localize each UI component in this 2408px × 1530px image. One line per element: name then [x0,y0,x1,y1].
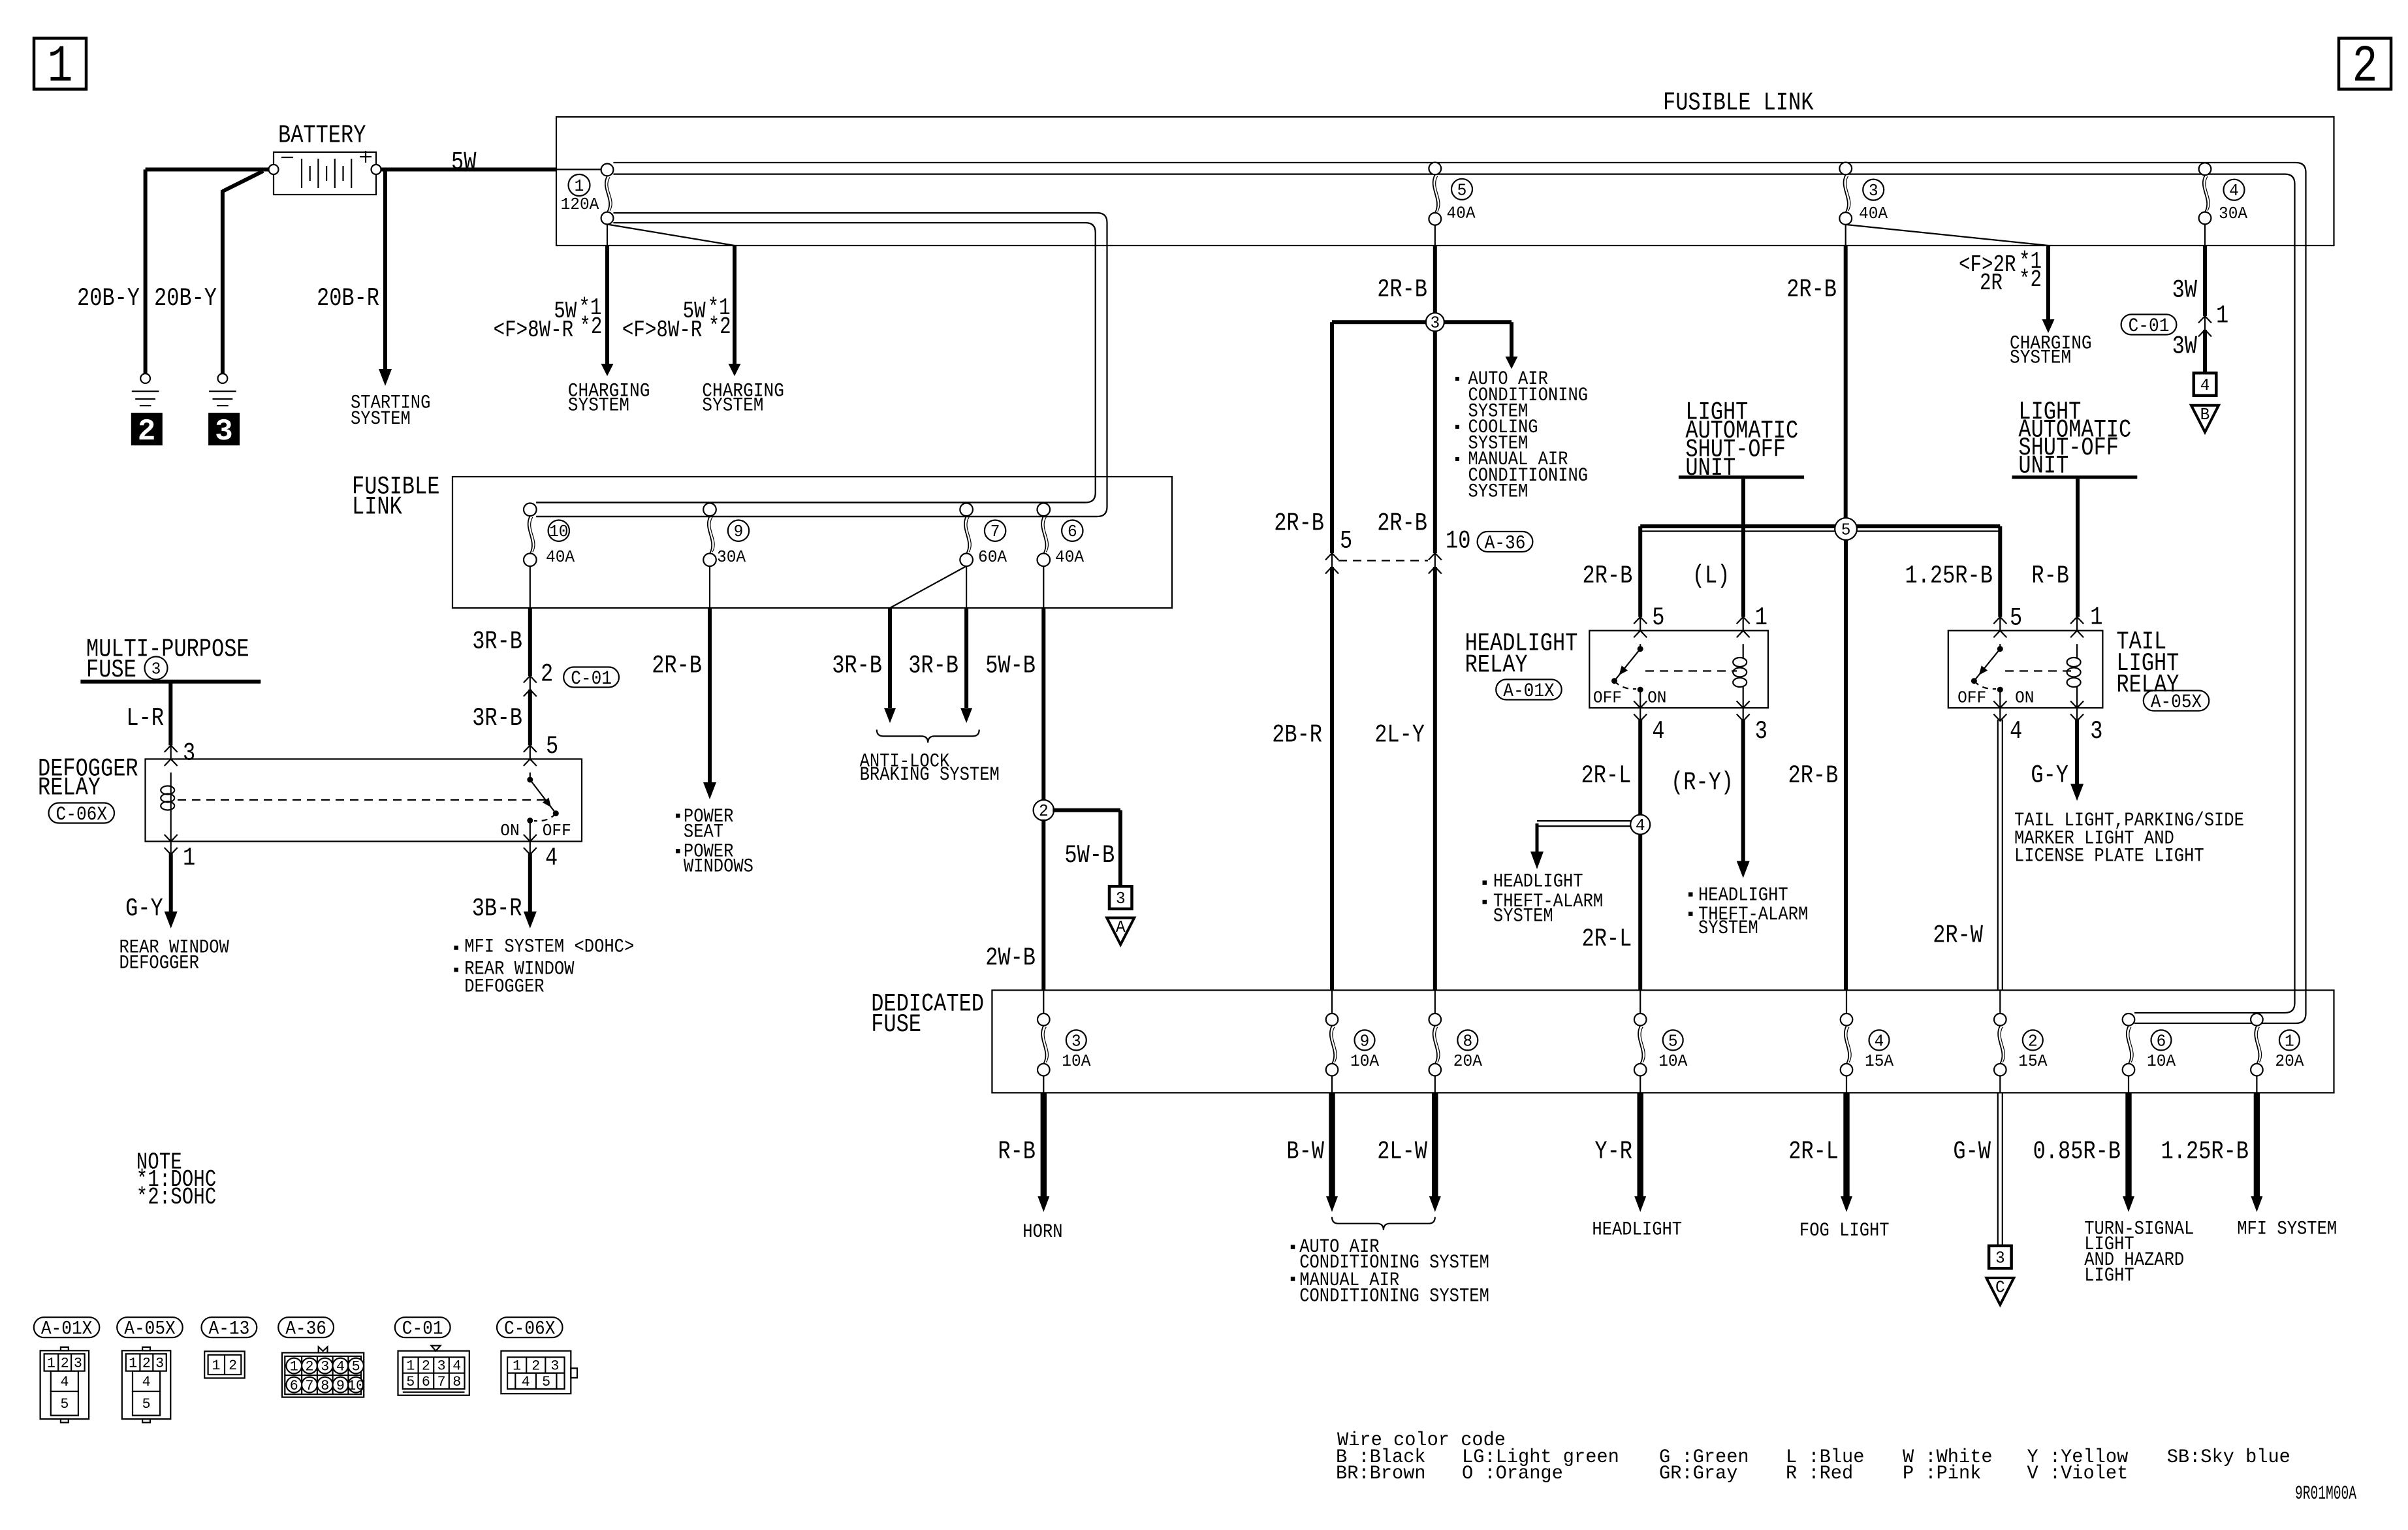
wire R-B unit 2 to tail light relay pin 1 [2076,479,2080,616]
connector drawing C-06X [501,1351,577,1394]
svg-text:1.25R-B: 1.25R-B [2161,1138,2249,1166]
wire label 2R-L (lower) [1582,925,1632,953]
svg-text:5: 5 [542,1374,550,1390]
dedicated fuse 1 (20A) [2251,1013,2304,1092]
battery B1 [269,151,381,195]
fusible link label (upper) [1663,89,1814,118]
wire 2R-B junction 3 to A-36 (left) [1330,322,1334,553]
drawing number 9R01M00A [2295,1483,2356,1505]
wire label 5W *1 / <F>8W-R *2 (second) [622,295,731,343]
headlight relay OFF/ON labels [1593,688,1667,707]
air conditioning brace [1332,1217,1435,1230]
svg-text:R :Red: R :Red [1786,1463,1853,1485]
svg-text:3B-R: 3B-R [472,894,522,923]
wire 3W to marker 4 [2203,330,2207,373]
svg-text:3: 3 [1430,313,1440,333]
wire label 2R-B (left branch) [1274,509,1324,538]
turn-signal light destination [2084,1219,2194,1287]
rear window defogger destination [119,937,229,975]
wire 2R-B junction 5 to dedicated fuse 4 [1844,540,1848,991]
connector drawing C-01 [398,1346,469,1395]
connector label A-01X [34,1317,100,1340]
dedicated fuse 6 (10A) [2123,1013,2176,1092]
svg-text:2R-B: 2R-B [1583,562,1633,590]
svg-text:5: 5 [142,1396,151,1412]
bus rails inside lower fusible box [536,503,1097,517]
svg-text:C-06X: C-06X [504,1318,556,1341]
svg-text:4: 4 [545,844,558,872]
svg-text:2R-B: 2R-B [1788,761,1839,790]
svg-text:HORN: HORN [1022,1221,1062,1243]
air conditioning destination (bottom) [1291,1236,1489,1308]
svg-text:2R-L: 2R-L [1582,925,1632,953]
svg-text:C-01: C-01 [2129,315,2170,338]
svg-text:2: 2 [306,1359,314,1375]
wire (R-Y) headlight relay pin 3 [1737,720,1750,878]
svg-text:FOG LIGHT: FOG LIGHT [1799,1220,1890,1242]
svg-text:ON: ON [1647,688,1666,707]
wire label 1.25R-B [1905,562,1993,590]
wire 5W-B fusible link 6 to junction 2 [1043,566,1044,801]
svg-text:DEFOGGER: DEFOGGER [119,952,199,974]
charging system destination (first) [568,381,650,417]
svg-text:*2: *2 [579,313,602,340]
svg-text:SYSTEM: SYSTEM [351,408,411,430]
light automatic shut-off unit 2 label [2018,398,2131,480]
marker box 3 (A) [1109,886,1132,909]
wire 3B-R to MFI system [524,854,537,929]
marker box 4 [2194,373,2217,396]
connector drawing A-13 [204,1351,245,1378]
wire label 2R-L (fog) [1788,1138,1839,1166]
dedicated fuse 9 (10A) [1326,990,1380,1092]
svg-text:4: 4 [2229,181,2239,200]
svg-text:5: 5 [1841,520,1851,540]
svg-text:3: 3 [1116,889,1126,908]
wire 2W-B junction 2 to dedicated fuse 3 [1041,820,1045,991]
svg-text:5: 5 [2010,604,2022,633]
connector drawing A-05X [122,1347,170,1423]
wire label G-Y [125,894,163,923]
svg-text:SYSTEM: SYSTEM [1468,481,1529,503]
svg-text:V :Violet: V :Violet [2027,1463,2129,1485]
svg-text:2R-B: 2R-B [1377,509,1427,538]
multi-purpose fuse bus bar [80,680,261,684]
svg-text:10: 10 [347,1378,364,1394]
svg-text:5: 5 [1457,180,1467,200]
svg-text:1: 1 [513,1358,521,1375]
svg-text:ON: ON [2015,688,2034,707]
svg-text:8: 8 [1463,1031,1472,1051]
wire 20B-R to starting system [379,170,392,387]
svg-text:15A: 15A [2018,1051,2047,1071]
svg-text:2R-W: 2R-W [1933,921,1983,950]
svg-text:10: 10 [1446,527,1470,556]
svg-text:4: 4 [1875,1031,1884,1051]
svg-text:A-36: A-36 [285,1318,326,1341]
svg-text:4: 4 [452,1358,461,1375]
svg-text:A: A [1116,917,1126,937]
svg-text:A-05X: A-05X [2151,692,2202,714]
svg-text:Y-R: Y-R [1594,1138,1632,1166]
connector label A-13 [202,1317,257,1340]
wire G-Y tail relay pin 3 [2070,720,2083,801]
svg-text:HEADLIGHT: HEADLIGHT [1493,871,1583,893]
wire label G-Y (tail) [2031,761,2068,790]
svg-text:10A: 10A [2147,1051,2176,1071]
connector C-01 crossing on 3R-B wire [524,660,619,697]
svg-text:A-01X: A-01X [1503,680,1555,703]
svg-text:P :Pink: P :Pink [1903,1463,1981,1485]
svg-text:A-13: A-13 [209,1318,250,1341]
page number box 1 [34,38,86,97]
svg-text:3: 3 [151,660,161,679]
svg-text:A-05X: A-05X [124,1318,176,1341]
wire label 1.25R-B (MFI) [2161,1138,2249,1166]
svg-text:LINK: LINK [352,493,402,522]
svg-text:4: 4 [522,1374,530,1390]
svg-text:*2:SOHC: *2:SOHC [136,1184,216,1211]
svg-text:HEADLIGHT: HEADLIGHT [1592,1219,1682,1241]
svg-text:5: 5 [1668,1031,1678,1051]
tail light relay OFF/ON labels [1957,688,2034,707]
svg-text:OFF: OFF [543,821,571,840]
svg-text:R-B: R-B [2031,562,2069,590]
svg-text:SYSTEM: SYSTEM [702,395,763,417]
svg-text:4: 4 [2010,717,2022,746]
svg-text:1: 1 [1755,603,1767,632]
ground G2 [208,374,240,449]
power seat / power windows destination [676,806,753,878]
fusible link 6 (40A) [1038,503,1085,567]
svg-text:FUSE: FUSE [871,1010,921,1039]
battery B1 label [278,121,366,150]
svg-text:2: 2 [422,1358,430,1375]
svg-text:2R-L: 2R-L [1788,1138,1839,1166]
svg-text:1: 1 [575,176,584,196]
svg-text:1: 1 [406,1358,415,1375]
svg-text:3R-B: 3R-B [472,628,522,656]
svg-text:5: 5 [1340,527,1352,556]
connector label C-01 [395,1317,451,1340]
svg-text:SYSTEM: SYSTEM [2010,347,2071,370]
svg-text:OFF: OFF [1593,688,1622,707]
dedicated fuse 3 (10A) [1038,990,1091,1092]
wire 2R-L junction 4 to dedicated fuse 5 [1638,835,1642,991]
wire label 3W (lower) [2172,332,2198,361]
svg-text:*2: *2 [708,313,731,340]
tail light parking destination [2014,810,2244,868]
svg-text:L-R: L-R [126,704,164,733]
wire label 2R-B (right branch) [1377,509,1427,538]
marker triangle A [1107,917,1134,945]
svg-text:30A: 30A [717,547,746,567]
svg-text:4: 4 [2200,375,2210,395]
svg-text:R-B: R-B [998,1138,1036,1166]
svg-text:9: 9 [336,1378,345,1394]
tail light relay connector label A-05X [2144,691,2210,714]
svg-text:2: 2 [1039,801,1049,821]
svg-text:20B-Y: 20B-Y [154,284,217,313]
svg-text:GR:Gray: GR:Gray [1659,1463,1737,1485]
svg-text:40A: 40A [1447,204,1476,223]
svg-text:5W-B: 5W-B [1064,841,1115,870]
svg-text:*2: *2 [2019,266,2042,293]
wire R-B to horn [1038,1092,1049,1212]
svg-text:6: 6 [2157,1031,2166,1051]
svg-text:(L): (L) [1692,562,1730,590]
svg-text:BR:Brown: BR:Brown [1336,1463,1426,1485]
connector C-01 crossing on 3W wire [2121,302,2229,338]
svg-text:3: 3 [2090,717,2102,746]
wire label 5W [451,148,477,177]
wire label 2R-B (fuse 3) [1786,276,1837,304]
wire label 2B-R [1272,721,1322,750]
svg-text:2: 2 [142,1356,151,1372]
svg-text:C-06X: C-06X [56,804,108,826]
svg-text:G-Y: G-Y [125,894,163,923]
wire 3R-B fusible link 10 to C-01 [530,566,531,676]
wire 2B-R to dedicated fuse 9 [1330,567,1334,990]
svg-text:2W-B: 2W-B [985,944,1036,972]
svg-text:1: 1 [2216,302,2228,330]
wire label 5W-B (upper) [985,652,1036,680]
dedicated fuse 8 (20A) [1429,990,1483,1092]
wire label R-B (horn) [998,1138,1036,1166]
defogger relay ON/OFF labels [500,821,571,840]
headlight theft-alarm destination (left) [1483,871,1604,928]
wire label B-W [1286,1138,1324,1166]
connector label A-36 [278,1317,334,1340]
anti-lock braking system destination [860,751,1000,787]
wire label 5W-B (branch) [1064,841,1115,870]
defogger relay connector label C-06X [49,803,115,826]
wire Y-R to headlight [1634,1092,1646,1212]
charging system destination (third) [2010,333,2092,370]
svg-text:2R-B: 2R-B [1377,276,1427,304]
svg-text:120A: 120A [561,195,599,214]
wire 1.25R-B to MFI system [2251,1092,2262,1212]
svg-text:2: 2 [541,660,553,689]
svg-text:<F>8W-R: <F>8W-R [622,317,703,343]
wire label 20B-R [317,284,379,313]
wire label 2R-L (upper) [1581,761,1632,790]
svg-text:4: 4 [1652,717,1664,746]
wire label 0.85R-B [2033,1138,2121,1166]
fusible link 7 (60A) [960,503,1007,567]
svg-text:1: 1 [129,1356,137,1372]
svg-text:40A: 40A [546,547,575,567]
svg-text:1: 1 [183,844,195,872]
wire B-W to air conditioning [1326,1092,1338,1212]
svg-text:5: 5 [60,1396,69,1412]
wire label L-R [126,704,164,733]
svg-text:5: 5 [352,1359,360,1375]
dedicated fuse 5 (10A) [1634,990,1688,1092]
svg-text:C-01: C-01 [402,1318,443,1341]
wire label 3R-B (lower) [472,704,522,733]
fusible link 9 (30A) [703,503,749,567]
wire label 3W (upper) [2172,276,2198,305]
fusible link 1 output wires to charging system [601,225,741,377]
wires 3R-B fusible link 7 to anti-lock braking system [884,566,972,723]
svg-text:A-36: A-36 [1485,532,1526,554]
svg-text:3: 3 [1071,1031,1081,1051]
light automatic shut-off unit 1 bar [1679,475,1804,479]
wire fusible link 3 to charging system [1846,225,2055,333]
svg-text:3W: 3W [2172,276,2198,305]
headlight relay [1589,617,1768,721]
svg-text:2: 2 [61,1356,69,1372]
svg-text:G-Y: G-Y [2031,761,2068,790]
svg-text:5: 5 [546,732,558,761]
connector label C-06X [497,1317,563,1340]
wire label (R-Y) [1671,769,1734,797]
tail light relay pin labels [2010,603,2102,746]
note DOHC SOHC [136,1149,216,1211]
wire G-Y to rear window defogger [165,854,178,929]
fusible link 1 (120A) [561,164,614,225]
svg-text:SYSTEM: SYSTEM [1698,917,1758,940]
svg-text:1: 1 [290,1359,298,1375]
svg-text:20A: 20A [2275,1051,2304,1071]
wire label Y-R [1594,1138,1632,1166]
wire label 2R-B (fuse 5) [1377,276,1427,304]
svg-text:7: 7 [306,1378,314,1394]
fusible link 3 (40A) [1839,163,1888,225]
svg-text:9: 9 [1360,1031,1370,1051]
dedicated fuse label [871,990,984,1040]
svg-text:A-01X: A-01X [41,1318,93,1341]
svg-text:C: C [1995,1278,2005,1298]
wire G-W to marker 3C [1998,1092,2003,1246]
svg-text:<F>8W-R: <F>8W-R [494,317,574,343]
wire label 3R-B (anti-lock right) [908,652,958,680]
svg-text:2R-B: 2R-B [652,652,702,680]
marker triangle B [2191,405,2219,432]
ground G1 [131,374,163,449]
svg-text:20A: 20A [1453,1051,1482,1071]
wire label (L) [1692,562,1730,590]
wire 2R-L to fog light [1841,1092,1852,1212]
wire label G-W [1953,1138,1991,1166]
anti-lock brace [877,729,979,742]
wire label 2R-B (junction 5 down) [1788,761,1839,790]
svg-text:SYSTEM: SYSTEM [568,395,629,417]
svg-text:ON: ON [500,821,519,840]
starting system destination [351,392,430,431]
fusible link box (upper) [556,117,2334,246]
svg-text:3: 3 [74,1356,82,1372]
svg-text:1: 1 [48,38,73,97]
svg-text:3: 3 [1995,1249,2005,1268]
svg-text:2: 2 [531,1358,540,1375]
wire label 3R-B (anti-lock left) [832,652,882,680]
headlight relay pin labels [1652,603,1767,746]
wire 2R-W tail relay pin 4 to dedicated fuse 2 [1998,720,2003,990]
svg-text:5: 5 [406,1374,415,1390]
fusible link label (lower) [352,473,439,522]
svg-text:10A: 10A [1350,1051,1379,1071]
light automatic shut-off unit 2 bar [2012,475,2138,479]
svg-text:4: 4 [1636,816,1645,835]
bus wire from fusible link 1 bottom (upper rail) [536,213,1107,517]
wire label 2L-W [1377,1138,1427,1166]
wire 2L-Y to dedicated fuse 8 [1433,567,1437,990]
svg-text:LICENSE PLATE LIGHT: LICENSE PLATE LIGHT [2014,846,2204,868]
svg-text:MFI SYSTEM <DOHC>: MFI SYSTEM <DOHC> [464,936,634,959]
dedicated fuse 2 (15A) [1994,990,2048,1092]
svg-text:MFI SYSTEM: MFI SYSTEM [2237,1219,2337,1241]
svg-text:BATTERY: BATTERY [278,121,366,150]
MFI system / rear window defogger destination [454,936,634,998]
svg-text:2L-Y: 2L-Y [1374,721,1425,750]
bus wire from fusible link 1 top (upper rail) [613,163,2305,1023]
svg-text:30A: 30A [2219,204,2247,223]
svg-text:8: 8 [452,1374,461,1390]
svg-text:3: 3 [155,1356,164,1372]
wire label <F>2R *1 2R *2 [1959,248,2042,296]
svg-text:CONDITIONING SYSTEM: CONDITIONING SYSTEM [1299,1286,1489,1308]
svg-text:20B-R: 20B-R [317,284,379,313]
svg-text:4: 4 [142,1374,151,1390]
svg-text:7: 7 [990,522,1000,541]
wire label 20B-Y (left) [77,284,140,313]
headlight theft-alarm destination (right) [1688,885,1808,940]
wire 2R-L headlight relay pin 4 to junction 4 [1638,720,1642,815]
MFI system destination [2237,1219,2337,1241]
marker box 3 (C) [1989,1246,2012,1269]
svg-text:1: 1 [212,1358,221,1374]
defogger relay pin labels [183,732,558,872]
svg-text:B-W: B-W [1286,1138,1324,1166]
fusible link 4 (30A) [2199,163,2248,224]
headlight relay label [1465,630,1578,680]
svg-text:3: 3 [215,415,233,449]
multi-purpose fuse 3 label [86,635,249,685]
svg-text:C-01: C-01 [571,668,612,690]
junction 2 [1034,800,1120,887]
svg-text:WINDOWS: WINDOWS [684,855,753,878]
defogger relay label [38,754,138,802]
wire 2R-B from fusible link 5 [1434,225,1436,313]
svg-text:B: B [2200,405,2210,424]
fusible link 10 (40A) [524,503,575,567]
svg-text:2R-B: 2R-B [1274,509,1324,538]
svg-text:20B-Y: 20B-Y [77,284,140,313]
page number box 2 [2339,38,2391,97]
svg-text:1: 1 [47,1356,55,1372]
svg-text:60A: 60A [978,547,1007,567]
svg-text:2R: 2R [1980,270,2003,296]
svg-text:9: 9 [734,522,744,541]
svg-text:3R-B: 3R-B [472,704,522,733]
svg-text:SEAT: SEAT [684,821,723,844]
wire (L) unit 1 to headlight relay pin 1 [1741,479,1745,616]
wire label 2R-B (fuse 9) [652,652,702,680]
connector drawing A-36 [282,1347,364,1397]
wire 5W battery positive to fusible link [381,168,601,172]
junction 5 [1835,518,1857,540]
svg-text:10: 10 [549,522,568,541]
svg-text:3: 3 [1869,181,1878,200]
svg-text:2R-L: 2R-L [1581,761,1632,790]
svg-text:8: 8 [321,1378,329,1394]
wire 2R-B fusible link 9 to power seat/windows [703,566,716,799]
wire 3R-B to defogger relay pin 5 [528,690,532,745]
svg-text:7: 7 [437,1374,446,1390]
wire 2L-W to air conditioning [1429,1092,1441,1212]
